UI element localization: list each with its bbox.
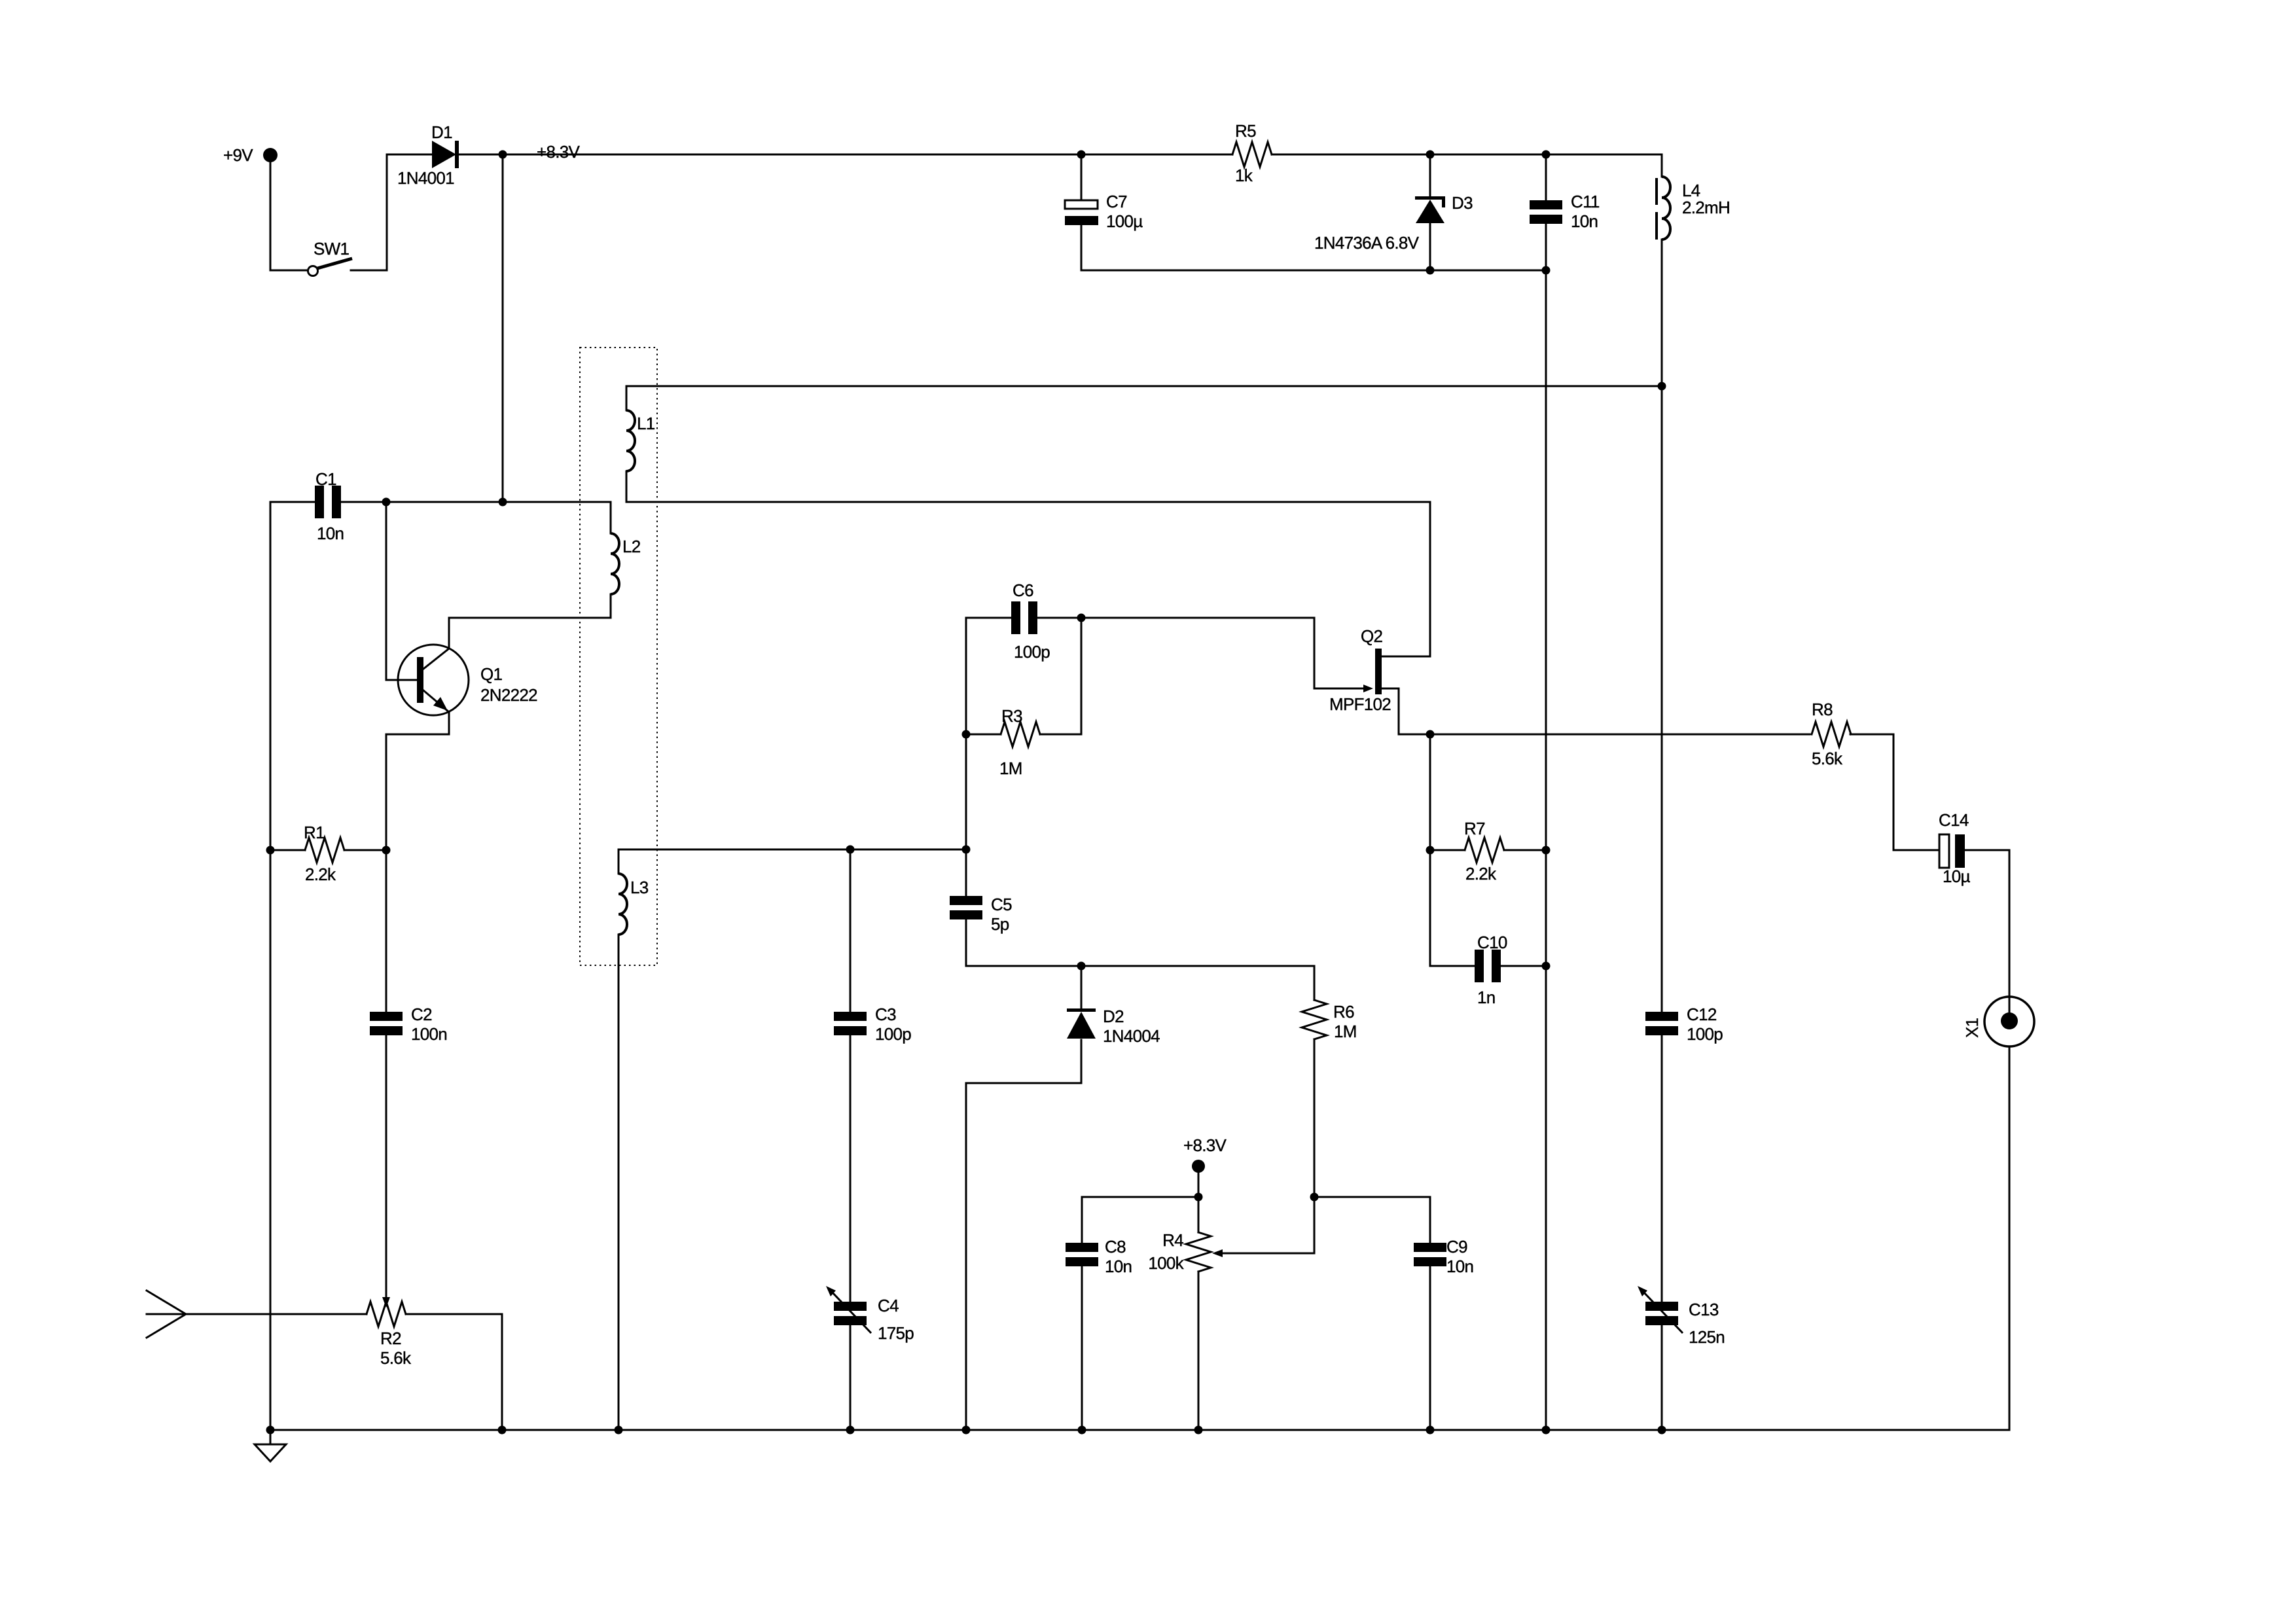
svg-text:100p: 100p bbox=[1014, 642, 1050, 662]
wire Q1 base bbox=[386, 679, 417, 681]
svg-text:1M: 1M bbox=[1334, 1022, 1357, 1041]
svg-text:D3: D3 bbox=[1452, 193, 1473, 213]
wire C6 node down to R3 right end bbox=[1081, 618, 1083, 734]
wire Q2 source to R8 and down to R7 bbox=[1382, 688, 1935, 850]
wire X1 top pin bbox=[2009, 850, 2011, 1016]
wire ground rail bbox=[270, 1429, 2009, 1431]
svg-text:L1: L1 bbox=[637, 414, 655, 433]
transformer shield dotted box bbox=[580, 348, 657, 965]
svg-text:10n: 10n bbox=[1571, 211, 1598, 231]
svg-text:+8.3V: +8.3V bbox=[537, 142, 581, 162]
svg-text:C5: C5 bbox=[991, 895, 1012, 914]
svg-text:175p: 175p bbox=[878, 1323, 914, 1343]
wire Q1 emitter to R1 right bbox=[386, 712, 449, 850]
svg-text:1N4004: 1N4004 bbox=[1103, 1026, 1160, 1046]
junction (2362,413) bbox=[1542, 266, 1551, 275]
svg-text:L3: L3 bbox=[630, 878, 649, 897]
svg-text:2.2k: 2.2k bbox=[305, 865, 336, 884]
svg-text:2.2mH: 2.2mH bbox=[1682, 198, 1730, 217]
transistor Q1 2N2222 bbox=[398, 618, 469, 715]
inductor L2 bbox=[611, 502, 619, 618]
diode D1 1N4001 bbox=[432, 141, 459, 168]
capacitor C12 100p bbox=[1645, 1012, 1678, 1035]
svg-text:10n: 10n bbox=[1446, 1257, 1473, 1276]
wire L2 bottom to Q1 collector bbox=[449, 618, 611, 649]
wire C9 bottom to rail bbox=[1429, 1266, 1431, 1430]
capacitor C13 125n variable bbox=[1638, 1286, 1683, 1333]
wire R3 row leads bbox=[966, 734, 1081, 736]
wire D1 cathode to +8.3V rail bbox=[458, 154, 1662, 156]
wire D2 cathode lead bbox=[1081, 966, 1083, 1008]
junction (1299,1298) bbox=[846, 846, 855, 854]
capacitor C11 10n bbox=[1530, 200, 1562, 224]
capacitor C2 100n bbox=[370, 1012, 403, 1035]
resistor R7 2.2k bbox=[1465, 838, 1504, 863]
capacitor C6 100p bbox=[1011, 601, 1037, 634]
svg-text:+9V: +9V bbox=[223, 145, 253, 165]
wire C5 top lead bbox=[965, 849, 967, 896]
svg-text:R3: R3 bbox=[1001, 706, 1022, 726]
svg-text:10n: 10n bbox=[317, 524, 344, 543]
potentiometer R2 5.6k wiper arrow bbox=[382, 1035, 390, 1308]
wire X1 bottom to rail bbox=[2009, 1046, 2011, 1430]
junction (2362,1299) bbox=[1542, 846, 1551, 855]
svg-text:R6: R6 bbox=[1333, 1002, 1354, 1022]
diode D2 1N4004 bbox=[1067, 1008, 1096, 1039]
svg-text:C10: C10 bbox=[1477, 933, 1507, 952]
wire D2 anode to ground column bbox=[966, 1040, 1081, 1430]
wire C6 row: R3 left column to Q2 gate column bbox=[966, 618, 1365, 688]
wire C11 column down bbox=[1545, 224, 1547, 1430]
wire C7 top lead bbox=[1081, 154, 1083, 200]
svg-text:C9: C9 bbox=[1446, 1237, 1467, 1257]
wire R4 wiper row to C9 top bbox=[1223, 1039, 1430, 1253]
junction (2185,236) bbox=[1426, 151, 1435, 159]
svg-text:C8: C8 bbox=[1105, 1237, 1126, 1257]
svg-text:SW1: SW1 bbox=[314, 239, 349, 259]
wire C7 bottom to D3/C11 bottom bbox=[1081, 224, 1546, 270]
svg-text:1n: 1n bbox=[1477, 988, 1496, 1007]
junction (1652,1476) bbox=[1077, 962, 1086, 971]
svg-text:100n: 100n bbox=[411, 1024, 447, 1044]
svg-text:10n: 10n bbox=[1105, 1257, 1132, 1276]
junction (767,2185) bbox=[498, 1426, 507, 1435]
wire Q2 source node down to R7 left and C10 left bbox=[1430, 734, 1475, 966]
wire C2 column R1 to C2 bbox=[386, 850, 387, 1012]
capacitor C7 100u electrolytic bbox=[1065, 200, 1098, 225]
junction (1831,1829) bbox=[1194, 1193, 1203, 1202]
ground symbol bbox=[255, 1430, 286, 1461]
svg-text:X1: X1 bbox=[1962, 1018, 1982, 1038]
svg-text:2N2222: 2N2222 bbox=[480, 685, 537, 705]
wire C14 row leads bbox=[1965, 850, 2009, 1012]
svg-text:L2: L2 bbox=[622, 537, 641, 556]
junction (2185,1299) bbox=[1426, 846, 1435, 855]
svg-text:Q1: Q1 bbox=[480, 664, 503, 684]
svg-text:1N4736A 6.8V: 1N4736A 6.8V bbox=[1314, 233, 1420, 253]
wire +8.3V bottom node to R4 bbox=[1198, 1166, 1200, 1232]
junction (2362,236) bbox=[1542, 151, 1551, 159]
svg-text:R4: R4 bbox=[1162, 1230, 1183, 1250]
capacitor C5 5p bbox=[950, 896, 982, 919]
svg-text:C4: C4 bbox=[878, 1296, 899, 1315]
wire C3/C4 column bbox=[850, 849, 852, 1430]
junction (413,2185) bbox=[266, 1426, 275, 1435]
junction (1652,236) bbox=[1077, 151, 1086, 159]
svg-text:R8: R8 bbox=[1812, 700, 1833, 719]
svg-text:100µ: 100µ bbox=[1106, 211, 1143, 231]
wire +9V terminal to SW1 bbox=[270, 162, 308, 270]
junction (2539,590) bbox=[1658, 382, 1666, 391]
wire C1 node down to Q1 base bbox=[386, 502, 387, 680]
svg-text:100p: 100p bbox=[875, 1024, 911, 1044]
junction (2185,413) bbox=[1426, 266, 1435, 275]
resistor R8 5.6k bbox=[1812, 722, 1851, 747]
svg-text:C12: C12 bbox=[1687, 1005, 1717, 1024]
junction (1652,944) bbox=[1077, 614, 1086, 622]
junction (413,1299) bbox=[266, 846, 275, 855]
switch SW1 bbox=[308, 259, 353, 276]
resistor R6 1M bbox=[1302, 1000, 1327, 1039]
wire C11 top lead bbox=[1545, 154, 1547, 200]
svg-text:R5: R5 bbox=[1235, 121, 1256, 141]
capacitor C8 10n bbox=[1066, 1243, 1098, 1266]
junction (768,767) bbox=[499, 498, 507, 507]
svg-text:C1: C1 bbox=[315, 469, 336, 489]
wire R7 row leads bbox=[1430, 849, 1546, 851]
junction (2185,1122) bbox=[1426, 730, 1435, 739]
wire L3 bottom to rail bbox=[618, 935, 620, 1430]
capacitor C10 1n bbox=[1475, 950, 1501, 982]
junction (2008,1829) bbox=[1310, 1193, 1319, 1202]
junction (768,236) bbox=[499, 151, 507, 159]
wire R1 row leads bbox=[270, 849, 386, 851]
inductor L3 bbox=[619, 849, 627, 965]
potentiometer R4 100k bbox=[1186, 1232, 1223, 1272]
svg-text:MPF102: MPF102 bbox=[1329, 694, 1391, 714]
junction (1476,1298) bbox=[962, 846, 971, 854]
wire antenna to R2 bbox=[147, 1314, 502, 1430]
junction (1299,2185) bbox=[846, 1426, 855, 1435]
wire SW1 to D1 anode bbox=[351, 154, 431, 270]
inductor L1 bbox=[626, 386, 635, 502]
svg-text:1M: 1M bbox=[999, 758, 1022, 778]
diode D3 zener 1N4736A bbox=[1415, 154, 1445, 270]
node +9V terminal bbox=[263, 148, 278, 162]
junction (2185,2185) bbox=[1426, 1426, 1435, 1435]
junction (2362,2185) bbox=[1542, 1426, 1551, 1435]
wire L3 top row bbox=[619, 849, 966, 851]
resistor R5 1k bbox=[1232, 142, 1272, 167]
wire C8 top row bbox=[1082, 1197, 1198, 1243]
inductor L4 2.2mH bbox=[1657, 154, 1670, 240]
resistor R2 5.6k bbox=[367, 1302, 406, 1327]
junction (590,1299) bbox=[382, 846, 391, 855]
resistor R1 2.2k bbox=[305, 838, 344, 863]
svg-text:5p: 5p bbox=[991, 914, 1009, 934]
junction (590,767) bbox=[382, 498, 391, 507]
svg-text:C6: C6 bbox=[1013, 580, 1033, 600]
wire left rail bbox=[270, 502, 272, 1430]
node junction dots bbox=[266, 151, 1666, 1435]
transistor Q2 MPF102 JFET bbox=[1363, 649, 1382, 694]
svg-text:C13: C13 bbox=[1689, 1300, 1719, 1319]
wire R4 bottom to ground rail bbox=[1198, 1272, 1200, 1430]
wire C5 bottom row to R6 top bbox=[966, 920, 1314, 1000]
svg-text:Q2: Q2 bbox=[1361, 626, 1383, 646]
svg-text:5.6k: 5.6k bbox=[1812, 749, 1843, 768]
svg-text:D2: D2 bbox=[1103, 1007, 1124, 1026]
svg-text:1k: 1k bbox=[1235, 166, 1253, 185]
capacitor C1 10n bbox=[315, 486, 341, 518]
junction (945,2185) bbox=[615, 1426, 623, 1435]
svg-text:+8.3V: +8.3V bbox=[1183, 1135, 1227, 1155]
svg-text:125n: 125n bbox=[1689, 1327, 1725, 1347]
svg-text:C7: C7 bbox=[1106, 192, 1127, 211]
svg-text:1N4001: 1N4001 bbox=[397, 168, 454, 188]
junction (2539,2185) bbox=[1658, 1426, 1666, 1435]
wire +8.3V rail drop to C1 node bbox=[502, 154, 504, 502]
capacitor C3 100p bbox=[834, 1012, 867, 1035]
node +8.3V bottom terminal bbox=[1192, 1160, 1205, 1173]
junction (1476,1122) bbox=[962, 730, 971, 739]
capacitor C4 175p variable bbox=[826, 1286, 871, 1333]
resistor R3 1M bbox=[1001, 722, 1040, 747]
capacitor C14 10u electrolytic bbox=[1893, 834, 1965, 868]
svg-text:C2: C2 bbox=[411, 1005, 432, 1024]
antenna input bbox=[147, 1291, 186, 1338]
svg-text:100k: 100k bbox=[1148, 1253, 1184, 1273]
svg-text:D1: D1 bbox=[431, 122, 452, 142]
svg-text:R7: R7 bbox=[1464, 819, 1485, 838]
svg-text:C3: C3 bbox=[875, 1005, 896, 1024]
wire L4 column: bottom lead, C12, C13, rail bbox=[1661, 240, 1663, 1430]
svg-text:C14: C14 bbox=[1939, 810, 1969, 830]
wire L1 bottom to Q2 drain column bbox=[626, 502, 1430, 656]
wire C10 right to C11 column bbox=[1501, 965, 1546, 967]
junction (2362,1476) bbox=[1542, 962, 1551, 971]
junction (1653,2185) bbox=[1078, 1426, 1086, 1435]
svg-text:C11: C11 bbox=[1571, 192, 1600, 211]
svg-text:2.2k: 2.2k bbox=[1465, 864, 1497, 883]
capacitor C9 10n bbox=[1414, 1243, 1446, 1266]
svg-text:5.6k: 5.6k bbox=[380, 1348, 412, 1368]
svg-text:R1: R1 bbox=[304, 823, 325, 842]
wire L1 top to L4 bottom node bbox=[626, 385, 1662, 387]
wire C8 bottom to rail bbox=[1081, 1266, 1083, 1430]
svg-text:R2: R2 bbox=[380, 1329, 401, 1348]
wire C1 row: left rail to L2 top bbox=[270, 501, 611, 503]
wire R3 left column C6 row to L3 row bbox=[965, 618, 967, 849]
svg-text:100p: 100p bbox=[1687, 1024, 1723, 1044]
junction (1831,2185) bbox=[1194, 1426, 1203, 1435]
junction (1476,2185) bbox=[962, 1426, 971, 1435]
svg-text:10µ: 10µ bbox=[1943, 866, 1971, 886]
connector X1 RCA jack bbox=[1984, 997, 2034, 1046]
